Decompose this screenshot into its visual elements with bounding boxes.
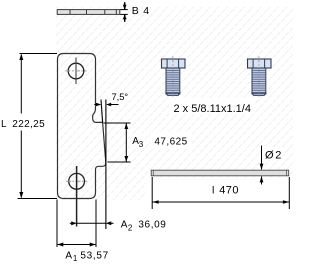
svg-text:36,09: 36,09 xyxy=(138,220,166,231)
svg-text:470: 470 xyxy=(219,185,239,197)
svg-text:A: A xyxy=(121,220,128,231)
svg-text:7,5°: 7,5° xyxy=(112,92,129,102)
svg-text:1: 1 xyxy=(73,254,78,263)
svg-text:L: L xyxy=(1,119,7,130)
svg-text:2: 2 xyxy=(275,149,281,161)
svg-text:53,57: 53,57 xyxy=(80,251,109,262)
svg-text:Ø: Ø xyxy=(265,149,274,161)
svg-text:B: B xyxy=(132,5,139,17)
svg-text:2 x 5/8.11x1.1/4: 2 x 5/8.11x1.1/4 xyxy=(174,103,251,115)
svg-text:4: 4 xyxy=(143,5,149,17)
svg-text:2: 2 xyxy=(128,224,133,233)
svg-text:3: 3 xyxy=(139,140,144,149)
svg-text:222,25: 222,25 xyxy=(12,119,45,130)
svg-text:l: l xyxy=(212,185,214,197)
svg-text:47,625: 47,625 xyxy=(154,137,187,148)
svg-text:A: A xyxy=(65,251,72,262)
